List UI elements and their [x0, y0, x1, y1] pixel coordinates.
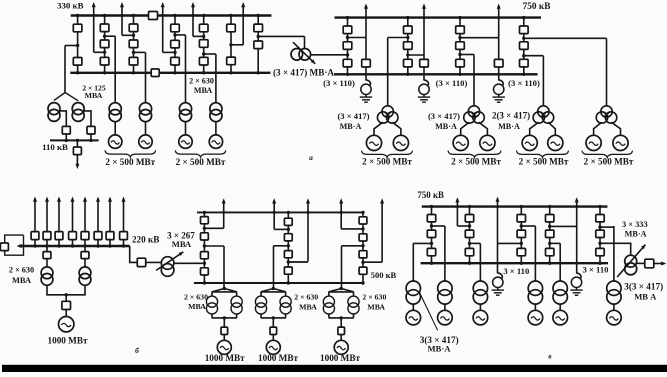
node 500 A tap: [203, 244, 206, 247]
breaker 220kV bay 2: [43, 232, 51, 240]
svg-text:1000 МВт: 1000 МВт: [205, 353, 245, 363]
wire 500 B tap: [288, 261, 308, 263]
breaker s5-3: [199, 57, 208, 65]
breaker v s4-2: [546, 230, 554, 237]
breaker generator Gb: [62, 301, 71, 309]
outgoing 500kV line arrow: [272, 198, 276, 229]
breaker s7-1: [254, 24, 263, 32]
node bay 6: [96, 244, 99, 247]
breaker v s5-3: [596, 248, 604, 255]
wire v unit U1 feeder: [412, 243, 414, 281]
breaker 220kV bay 6: [94, 232, 102, 240]
breaker 500 A4: [201, 268, 209, 275]
wire v unit U2 feeder: [444, 226, 446, 281]
breaker 750 s3-2: [456, 42, 465, 50]
svg-text:2 × 630: 2 × 630: [184, 292, 208, 301]
breaker s5-1: [199, 24, 208, 32]
transformer v U2 (3x417): [438, 281, 452, 304]
transformer T1 630 MVA: [109, 103, 121, 122]
breaker 220kV bay 7: [106, 232, 114, 240]
wire v unit U5 feeder: [559, 243, 561, 281]
outgoing line L4 arrow: [191, 2, 195, 36]
svg-text:2 × 500 МВт: 2 × 500 МВт: [519, 157, 569, 167]
string 5 wire: [203, 16, 205, 73]
220kV feeder bay 7: [109, 240, 111, 247]
svg-text:2 × 630: 2 × 630: [9, 265, 34, 274]
svg-text:МВ·А: МВ·А: [340, 122, 362, 131]
node 750 s1 tap1: [346, 36, 349, 39]
750kV-v string 5 wire: [599, 207, 601, 264]
node 750 s4 tap2: [522, 54, 525, 57]
wire 750 s3 tap2: [460, 54, 474, 56]
breaker 750 s1-3: [343, 59, 352, 67]
shunt reactor R4 (3x110): [493, 273, 503, 290]
breaker 500 C4: [359, 267, 367, 274]
breaker s4-3: [171, 57, 180, 65]
node 750 s1 tap2: [346, 53, 349, 56]
750 kV bus W4 (bottom): [334, 73, 538, 75]
transformer v U3 (3x417): [473, 281, 487, 304]
breaker 500 A1: [201, 217, 209, 224]
node s4 tap1: [173, 33, 176, 36]
string 3 wire: [133, 16, 135, 73]
svg-text:2 × 630: 2 × 630: [362, 293, 386, 302]
svg-text:3 × 333: 3 × 333: [622, 220, 648, 229]
wire v s5 tap2 to AT3: [627, 243, 631, 255]
breaker v s5-1: [596, 215, 604, 222]
node P1 apex: [223, 287, 226, 290]
wire v unit U6 feeder: [613, 226, 615, 281]
wire unit U2 feeder: [473, 55, 475, 106]
breaker 500 C2: [359, 234, 367, 241]
node s3 tap1: [132, 34, 135, 37]
750kV-v string 4 wire: [549, 207, 551, 264]
breaker v s4-3: [546, 248, 554, 255]
wire v s3 tap1: [521, 225, 535, 227]
bypass loop left end: [5, 235, 24, 255]
node 500 C tap: [361, 227, 364, 230]
breaker generator G500-2: [270, 327, 277, 334]
outgoing 750kV line L6 arrow: [364, 4, 368, 38]
svg-text:МВА: МВА: [85, 91, 103, 100]
breaker v s3-2: [517, 230, 525, 237]
node 750 s2 tap2: [406, 53, 409, 56]
breaker 500 C3: [359, 251, 367, 258]
wire T3 to generator G3: [185, 122, 187, 135]
svg-text:(3 × 110): (3 × 110): [508, 78, 540, 88]
svg-text:750 кВ: 750 кВ: [523, 2, 551, 12]
breaker 220kV bay 3: [55, 232, 63, 240]
outgoing 750kV line L7 arrow: [422, 4, 426, 56]
svg-text:2 × 500 МВт: 2 × 500 МВт: [176, 157, 226, 167]
wire 750 s1 tap1: [348, 37, 367, 39]
node v s4 tap2: [548, 242, 551, 245]
svg-text:а: а: [309, 153, 313, 162]
wire v unit U3 feeder: [479, 243, 481, 281]
breaker 750 s1-2: [343, 42, 352, 50]
750 kV bus W5 (top): [422, 205, 608, 207]
breaker 750 s1-1: [343, 26, 352, 34]
generator G500-3 1000 MW: [334, 340, 348, 354]
node v s2 tap2: [468, 242, 471, 245]
wire unit U1 feeder: [387, 38, 389, 106]
node v s3 tap1: [520, 224, 523, 227]
outgoing 500kV line arrow: [339, 198, 343, 229]
wire v s1 tap1: [432, 225, 445, 227]
autotransformer AT2 3x267 MVA: [156, 252, 183, 276]
750kV-v string 3 wire: [520, 207, 522, 264]
breaker AT2: [137, 258, 145, 266]
breaker 750 s3-1: [456, 26, 465, 34]
220kV feeder bay 6: [97, 240, 99, 247]
breaker transformer T22-1: [43, 252, 51, 259]
brace 750 unit 1: [362, 151, 413, 158]
breaker reactor R3: [494, 59, 503, 67]
generator G750-2a: [453, 135, 468, 150]
node 500kV rail crossings: [222, 211, 225, 214]
node bay 2: [45, 244, 48, 247]
transformer P3b 630 MVA: [348, 296, 359, 314]
svg-text:МВ·А: МВ·А: [428, 343, 452, 353]
transformer v U5 (3x417): [553, 281, 567, 304]
outgoing 220kV line arrow 5: [83, 197, 87, 232]
transformer T22-1 630 MVA: [41, 267, 53, 285]
breaker v s1-3: [427, 248, 435, 255]
wire U4 to generators: [594, 122, 621, 135]
node 500 A tap: [203, 262, 206, 265]
wire unit U3 feeder: [542, 56, 544, 106]
transformer P3a 630 MVA: [323, 296, 334, 314]
unit pair P3 split: [329, 289, 354, 328]
node 500 C tap: [361, 244, 364, 247]
bus W1 sectionalizer breaker: [149, 12, 158, 20]
breaker T6 110kV side: [87, 126, 95, 134]
svg-text:2 × 500 МВт: 2 × 500 МВт: [584, 157, 634, 167]
breaker v s2-2: [465, 230, 473, 237]
outgoing 750kV line arrow (v L2): [496, 197, 500, 244]
transformer T22-2 630 MVA: [79, 267, 91, 285]
node 110kV A: [65, 139, 68, 142]
220kV feeder bay 8: [123, 240, 125, 247]
breaker v s4-1: [546, 215, 554, 222]
generator v G2: [438, 310, 453, 325]
breaker s3-1: [129, 24, 138, 32]
node 500 B tap: [287, 244, 290, 247]
wire AT2 to 500kV string A: [174, 262, 204, 264]
transformer T2 630 MVA: [139, 103, 151, 122]
wire T3 feeder: [185, 35, 187, 103]
unit pair P2 split: [261, 289, 286, 328]
node v s3 tap2: [520, 242, 523, 245]
generator G750-4b: [613, 135, 628, 150]
generator G500-2 1000 MW: [266, 340, 280, 354]
svg-text:МВА: МВА: [367, 302, 385, 311]
svg-text:(3 × 417): (3 × 417): [428, 111, 460, 121]
node bay 7: [108, 244, 111, 247]
wire tap to coupling autotransformer AT1: [258, 35, 304, 37]
transformer bank U4 (3x417 MVA trefoil): [596, 106, 617, 123]
svg-text:б: б: [135, 346, 139, 355]
breaker transformer T22-2: [81, 252, 89, 259]
svg-text:МВА: МВА: [12, 276, 31, 285]
220kV feeder bay 3: [58, 240, 60, 247]
750 kV bus W6 (bottom): [421, 262, 608, 264]
svg-text:1000 МВт: 1000 МВт: [48, 335, 88, 345]
generator G750-2b: [480, 135, 495, 150]
wire 110kV feeder: [76, 140, 78, 147]
transformer bank U3 (3x417 MVA trefoil): [533, 106, 554, 123]
wire feeder B2 elbow: [288, 261, 308, 263]
node s5 tap1: [202, 35, 205, 38]
generator Gb 1000 MW: [58, 317, 73, 332]
generator v G6: [607, 310, 622, 325]
750kV-v string 2 wire: [469, 207, 471, 264]
transformer T3 630 MVA: [179, 103, 191, 122]
220kV feeder bay 1: [34, 240, 36, 247]
brace unit pair 2: [175, 150, 226, 157]
wire 750 s4 tap2: [524, 55, 544, 57]
node P1 join: [223, 316, 226, 319]
breaker T5 110kV side: [62, 126, 70, 134]
outgoing 220kV line arrow 4: [71, 197, 75, 232]
transformer P1b 630 MVA: [231, 296, 242, 314]
node bay 3: [57, 244, 60, 247]
node s5 tap2: [202, 52, 205, 55]
svg-text:в: в: [548, 353, 551, 361]
node 500 A tap: [203, 227, 206, 230]
node 500 B tap: [287, 260, 290, 263]
generator G750-1b: [393, 135, 408, 150]
generator G750-3b: [548, 135, 563, 150]
breaker s4-1: [171, 24, 180, 32]
wire v s4 tap2: [550, 242, 561, 244]
breaker s2-1: [100, 24, 109, 32]
string 1 wire: [77, 16, 79, 73]
string 7 wire: [257, 16, 259, 73]
wire 500 A tap: [204, 227, 223, 229]
outgoing 220kV line arrow 2: [45, 197, 49, 232]
brace 750 unit 4: [582, 151, 633, 158]
breaker s6-2: [227, 57, 236, 65]
wire tap to transformer T1: [105, 35, 116, 37]
220kV feeder bay 5: [84, 240, 86, 247]
wire T4 to generator G4: [215, 122, 217, 135]
breaker 110kV feeder: [73, 147, 81, 155]
750kV string 3 wire: [459, 18, 461, 75]
transformer v U1 (3x417): [406, 281, 420, 304]
wire T2 to generator G2: [145, 122, 147, 135]
breaker s4-2: [171, 40, 180, 48]
outgoing 220kV line arrow 1: [33, 197, 37, 232]
wire 500kV unit feeder: [341, 246, 343, 289]
breaker 750 s2-3: [404, 59, 413, 67]
wire v s1 tap2: [413, 242, 431, 244]
wire unit U4 feeder: [606, 38, 608, 106]
500 kV rail (bottom): [194, 282, 363, 284]
breaker 750 s3-3: [456, 59, 465, 67]
110 kV bus: [50, 139, 99, 141]
svg-text:1000 МВт: 1000 МВт: [320, 353, 360, 363]
node bay 1: [33, 244, 36, 247]
breaker s3-2: [129, 40, 138, 48]
wire AT3 to breaker: [637, 262, 645, 264]
breaker 500 C1: [359, 217, 367, 224]
750kV string 1 wire: [347, 18, 349, 75]
wire down to 110kV transformers: [64, 46, 66, 93]
wire v L3 to reactor R5: [576, 226, 578, 273]
wire L7 down to reactor breaker: [423, 55, 425, 59]
breaker 750 s4-3: [520, 59, 529, 67]
node v s5 tap2: [598, 242, 601, 245]
shunt reactor R2 (3x110): [419, 80, 429, 97]
outgoing line L2 arrow: [120, 2, 124, 35]
node s4 tap2: [173, 51, 176, 54]
330 kV bus W1 (top): [71, 14, 272, 16]
wire split to 2x125 MVA transformers: [54, 93, 78, 101]
generator G3: [179, 135, 192, 148]
breaker s1-2: [73, 58, 82, 66]
breaker 500 B3: [284, 251, 292, 258]
svg-text:330 кВ: 330 кВ: [57, 0, 83, 10]
breaker s1-1: [73, 24, 82, 32]
autotransformer AT3 3x333 MVA: [617, 245, 645, 277]
node L1 bus crossing: [92, 14, 95, 17]
wire 500kV unit feeder: [223, 246, 225, 289]
wire v s5 tap2: [600, 242, 627, 244]
breaker generator G500-3: [338, 327, 345, 334]
shunt reactor R3 (3x110): [494, 80, 504, 97]
svg-text:(3 × 417) МВ·А: (3 × 417) МВ·А: [273, 67, 334, 77]
breaker reactor R1: [362, 59, 371, 67]
wire to reactor R3: [498, 67, 500, 81]
wire v U6 to generator: [613, 304, 615, 310]
wire T2 feeder: [145, 52, 147, 102]
bus continuation arrow (left): [17, 244, 22, 248]
breaker 750 s4-2: [520, 42, 529, 50]
wire T1 feeder: [114, 36, 116, 103]
220kV feeder bay 2: [46, 240, 48, 247]
svg-text:110 кВ: 110 кВ: [42, 142, 68, 152]
node s2 tap1: [103, 35, 106, 38]
wire tap to transformer T2: [134, 51, 146, 53]
generator v G1: [406, 310, 421, 325]
svg-text:МВ·А: МВ·А: [625, 229, 647, 238]
transformer P1a 630 MVA: [206, 296, 217, 314]
node 110kV B: [76, 139, 79, 142]
breaker s6-1: [227, 24, 236, 32]
node s1 tap: [76, 44, 79, 47]
svg-text:МВА: МВА: [172, 239, 192, 249]
node s7 tap: [257, 35, 260, 38]
wire 500 A tap: [204, 245, 224, 247]
svg-text:500 кВ: 500 кВ: [371, 270, 397, 280]
generator G1: [109, 135, 122, 148]
750 kV bus W3 (top): [335, 16, 542, 18]
outgoing 750kV line L8 arrow: [497, 4, 501, 38]
wire 500kV unit feeder: [273, 246, 275, 289]
wire 750 s4 tap1: [524, 37, 607, 39]
breaker s2-2: [100, 40, 109, 48]
transformer bank U1 (3x417 MVA trefoil): [377, 106, 398, 123]
breaker v s2-3: [465, 248, 473, 255]
wire v U4 to generator: [534, 304, 536, 310]
transformer bank U2 (3x417 MVA trefoil): [464, 106, 485, 123]
node bay 4: [71, 244, 74, 247]
wire 220kV bus to AT2: [130, 246, 162, 262]
generator v G5: [553, 310, 568, 325]
wire v U1 to generator: [412, 304, 414, 310]
outgoing 500kV line arrow: [222, 198, 226, 228]
svg-text:2 × 630: 2 × 630: [189, 77, 214, 86]
generator G750-3a: [522, 135, 537, 150]
node 750 s3 tap1: [458, 36, 461, 39]
pointer line to label 3(3x417): [420, 293, 438, 331]
wire v s3 tap2: [498, 242, 522, 244]
breaker v s3-1: [517, 215, 525, 222]
transformer P2b 630 MVA: [280, 296, 291, 314]
wire v U2 to generator: [444, 304, 446, 310]
breaker v s2-1: [465, 215, 473, 222]
wire 500 C tap: [341, 228, 363, 230]
330 kV bus W2 (bottom): [70, 72, 270, 74]
brace unit pair 1: [105, 150, 156, 157]
string 4 wire: [174, 16, 176, 73]
node s2 tap2: [103, 51, 106, 54]
node P3 apex: [340, 287, 343, 290]
wire 500 B tap: [274, 228, 288, 230]
svg-text:3(3 × 417): 3(3 × 417): [624, 282, 663, 292]
string 6 wire: [230, 16, 232, 73]
node P3 join: [340, 316, 343, 319]
outgoing 500kV line arrow: [380, 198, 384, 262]
node generator junction: [65, 293, 68, 296]
svg-text:750 кВ: 750 кВ: [417, 190, 444, 200]
brace 750 unit 3: [517, 151, 569, 158]
wire v s4 tap1: [550, 225, 577, 227]
node bay 5: [83, 244, 86, 247]
string 2 wire: [104, 16, 106, 73]
node 750 s3 tap2: [458, 53, 461, 56]
node s3 tap2: [132, 51, 135, 54]
wire tap to transformer T4: [204, 53, 216, 55]
node 500 B tap: [287, 228, 290, 231]
outgoing medium-voltage link arrow: [654, 262, 667, 266]
breaker 220kV bay 5: [81, 232, 89, 240]
wire 750 s2 tap1: [388, 37, 408, 39]
bus W2 sectionalizer breaker: [151, 69, 159, 77]
breaker s2-3: [100, 57, 109, 65]
svg-text:220 кВ: 220 кВ: [132, 234, 160, 244]
generator G2: [139, 135, 152, 148]
wire to reactor R2: [423, 67, 425, 81]
wire tap to line L5: [231, 44, 243, 46]
outgoing 220kV line arrow 8: [122, 197, 126, 232]
svg-text:МВА: МВА: [299, 302, 317, 311]
autotransformer AT1 3x417 MVA: [291, 42, 315, 64]
node v s5 tap1: [598, 225, 601, 228]
breaker v s1-2: [427, 230, 435, 237]
generator G500-1 1000 MW: [217, 340, 231, 354]
svg-text:3 × 110: 3 × 110: [503, 266, 529, 276]
750kV-v string 1 wire: [431, 207, 433, 264]
wire 750 s3 tap1: [460, 37, 499, 39]
node 750 s2 tap1: [406, 36, 409, 39]
wire U3 to generators: [530, 122, 556, 135]
750kV string 2 wire: [407, 18, 409, 75]
wire T6 secondary: [84, 111, 91, 127]
transformer T4 630 MVA: [210, 103, 222, 122]
node v s4 tap1: [548, 225, 551, 228]
